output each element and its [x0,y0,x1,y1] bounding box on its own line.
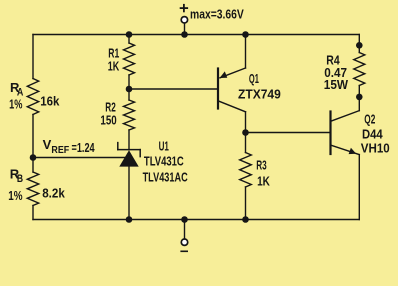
node plus supply terminal [181,17,187,23]
svg-text:TLV431AC: TLV431AC [143,170,189,185]
node minus return terminal [181,239,187,245]
wire left rail lower (VREF node to RB) [32,158,34,173]
wire node to Q2 base [246,132,331,134]
wire left rail bottom (RB to bottom rail) [32,206,34,220]
svg-text:1K: 1K [108,58,120,73]
wire R1 top lead [128,35,130,44]
svg-text:Q2: Q2 [364,111,375,126]
wire Q2 collector riser [358,97,360,111]
node R3/bottom rail junction [242,216,249,223]
svg-text:B: B [17,173,23,185]
node R4 top junction [356,42,363,49]
wire right drop to R4 [358,35,360,46]
wire U1 anode to bottom rail [128,167,130,220]
svg-text:150: 150 [100,112,116,127]
resistor R2 150 [124,100,135,130]
node R1/top rail junction [126,31,133,38]
wire R2 bottom lead to U1 cathode [128,130,130,150]
svg-text:R3: R3 [256,157,267,172]
resistor R1 1K [124,43,135,75]
transistor Q1 ZTX749 (PNP) [218,68,246,112]
wire VREF node to U1 ref [33,157,125,159]
svg-text:1%: 1% [9,98,22,112]
node VREF junction [30,154,37,161]
wire node to Q1 base [129,88,218,90]
wire bottom rail [33,219,359,221]
transistor Q2 D44VH10 (NPN) [331,111,360,155]
resistor RA 16k [27,79,38,115]
svg-text:U1: U1 [159,139,169,154]
node Q1 emitter/top rail junction [242,31,249,38]
minus sign [181,250,187,252]
wire R3 bottom lead [245,187,247,220]
node supply/top rail junction [181,31,188,38]
wire R2 top lead [128,89,130,100]
wire R4 top lead [358,45,360,52]
wire Q1 emitter riser [245,35,247,69]
svg-text:VH10: VH10 [361,140,390,155]
svg-text:max=3.66V: max=3.66V [190,7,244,22]
Q1 emitter arrow (PNP, into base) [220,71,228,78]
resistor RB 8.2k [27,172,38,206]
wire bottom rail to minus terminal [184,220,186,239]
svg-text:ZTX749: ZTX749 [238,87,281,102]
wire top rail [33,34,359,36]
wire Q2 emitter riser to bottom rail [358,155,360,220]
svg-text:Q1: Q1 [249,71,259,86]
node return terminal junction [181,216,188,223]
svg-text:V: V [43,137,52,152]
wire left rail upper (to RA) [32,35,34,79]
wire R4 bottom lead [358,86,360,97]
wire Q1 collector riser to node [245,112,247,133]
op-amp U1 TLV431 shunt regulator symbol [118,143,140,167]
svg-text:8.2k: 8.2k [42,186,65,201]
resistor R3 1K [240,153,252,188]
wire plus terminal to top rail [184,24,186,35]
svg-text:15W: 15W [324,77,349,92]
wire left rail mid (RA to VREF node) [32,115,34,158]
svg-text:D44: D44 [362,126,383,141]
svg-text:=1.24: =1.24 [72,140,96,155]
node R1-R2-Q1 base junction [126,86,133,93]
node U1 anode/bottom rail junction [126,216,133,223]
node R4-Q2 collector junction [356,94,363,101]
svg-text:REF: REF [51,145,69,156]
svg-text:16k: 16k [40,94,60,109]
resistor R4 0.47 15W [354,53,365,86]
svg-text:1%: 1% [8,189,22,203]
node Q1 collector-Q2 base-R3 junction [242,129,249,136]
svg-text:TLV431C: TLV431C [144,154,184,169]
Q2 emitter arrow (NPN, outward) [349,148,357,154]
plus sign [181,5,188,12]
wire R3 top lead [245,133,247,153]
wire R1 bottom lead to node [128,75,130,89]
svg-text:1K: 1K [257,173,270,188]
